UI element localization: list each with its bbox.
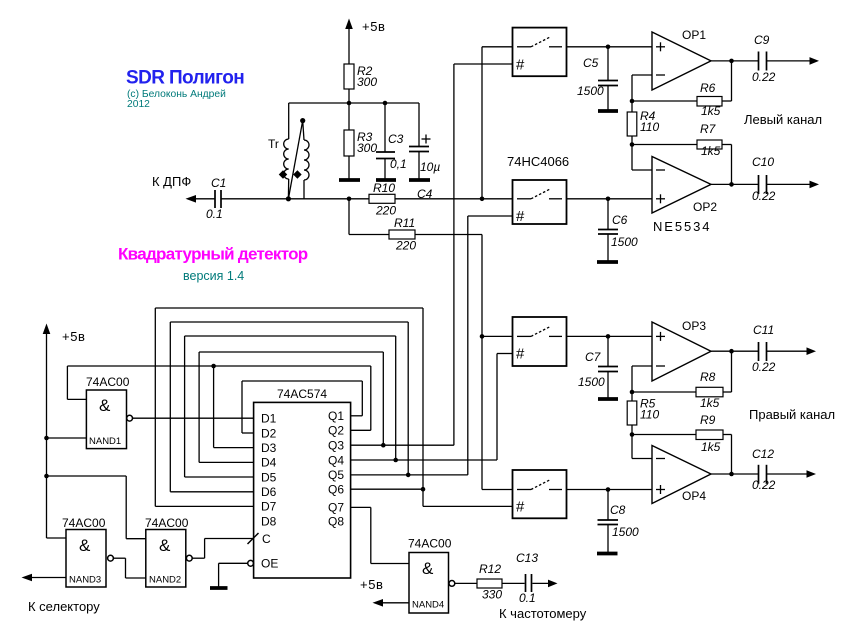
wire Q3 row to switch1 control [351, 444, 454, 446]
node R5 bottom [630, 432, 635, 437]
node R4 bottom [630, 142, 635, 147]
wire R6 left to node [632, 100, 697, 102]
capacitor C6 [598, 199, 638, 262]
wire riser to switch1 [481, 47, 483, 199]
resistor R10 [369, 181, 396, 218]
svg-text:+5в: +5в [62, 329, 86, 344]
wire switch1 output [567, 46, 653, 48]
capacitor C1 [206, 176, 226, 221]
wire OP4 inverting input [632, 435, 652, 459]
node rail NAND1 branch [44, 436, 49, 441]
bus arc1 Q6-D7 [155, 308, 423, 506]
svg-text:+5в: +5в [362, 19, 386, 34]
svg-text:10µ: 10µ [420, 160, 440, 174]
wire switch2 output [567, 198, 653, 200]
wire OP3 inverting input [632, 366, 652, 392]
svg-text:OP2: OP2 [693, 200, 717, 214]
transformer Tr [268, 103, 309, 199]
wire OP4 output [711, 473, 759, 475]
wire R2 to node [348, 89, 350, 103]
power +5v rail left [43, 324, 86, 539]
svg-text:Q4: Q4 [328, 453, 344, 467]
capacitor C7 [578, 336, 618, 399]
wire to R11 [349, 234, 389, 236]
svg-text:#: # [516, 346, 525, 363]
svg-text:D8: D8 [261, 515, 277, 529]
svg-text:1500: 1500 [612, 525, 639, 539]
wire switch2 control stub [468, 215, 513, 217]
wire R9 right drop to OP4 output [723, 435, 732, 475]
node C5 [606, 45, 611, 50]
svg-text:C9: C9 [754, 33, 770, 47]
op-amp OP4 [652, 446, 711, 504]
arrow left channel Q out [810, 181, 820, 189]
wire R9 row left [632, 434, 696, 436]
svg-text:NAND1: NAND1 [89, 436, 121, 447]
svg-text:R11: R11 [394, 216, 415, 230]
wire R11 net down to switch4 [481, 235, 483, 490]
resistor R9 [696, 413, 723, 454]
wire into switch1 [482, 46, 513, 48]
arrow left channel I out [810, 57, 820, 65]
wire R8 right [723, 391, 732, 393]
svg-text:C8: C8 [610, 503, 626, 517]
svg-text:D3: D3 [261, 441, 277, 455]
gate NAND4 74AC00 [408, 537, 455, 614]
arrow right channel Q out [807, 470, 817, 478]
node C6 [606, 197, 611, 202]
svg-text:#: # [516, 499, 525, 516]
svg-text:версия 1.4: версия 1.4 [183, 269, 244, 283]
bus arc6 Q1-D2 [242, 381, 362, 433]
node Q6 riser [421, 487, 426, 492]
svg-text:D5: D5 [261, 470, 277, 484]
svg-text:74AC00: 74AC00 [86, 375, 130, 389]
node arc5 D3 branch [211, 364, 216, 369]
svg-text:Правый канал: Правый канал [749, 407, 835, 422]
wire Q1 stub [351, 415, 363, 417]
svg-text:OE: OE [261, 557, 278, 571]
wire Q2 stub [351, 429, 371, 431]
switch U1a [513, 28, 567, 77]
gate NAND1 74AC00 [86, 375, 133, 449]
svg-text:0.22: 0.22 [752, 478, 776, 492]
resistor R5 [627, 392, 659, 435]
node R2/R3 junction [347, 101, 352, 106]
bus arc5 Q2-D3-NAND1 [67, 366, 370, 448]
resistor R4 [627, 101, 659, 145]
capacitor C10 [752, 155, 776, 203]
svg-text:NAND2: NAND2 [149, 575, 181, 586]
wire Q6 drop to switch4 control [423, 489, 513, 506]
capacitor C13 [516, 551, 538, 605]
wire R11 to corner [415, 234, 482, 236]
wire arrow to C1 [195, 198, 215, 200]
svg-text:NAND4: NAND4 [412, 600, 444, 611]
svg-text:Q2: Q2 [328, 424, 344, 438]
wire R12 to C13 [502, 582, 525, 584]
resistor R7 [697, 122, 722, 158]
node switch input riser [480, 197, 485, 202]
svg-text:R7: R7 [700, 122, 717, 136]
svg-text:+5в: +5в [360, 577, 384, 592]
svg-text:C7: C7 [585, 350, 602, 364]
ground under R3 [339, 178, 360, 182]
wire C11 to output [767, 350, 808, 352]
svg-text:0.22: 0.22 [752, 360, 776, 374]
wire R6 right [722, 100, 732, 102]
svg-text:#: # [516, 57, 525, 74]
wire Q7 to NAND4 [351, 507, 409, 563]
svg-text:0.22: 0.22 [752, 70, 776, 84]
svg-text:OP1: OP1 [682, 28, 706, 42]
node C7 [606, 334, 611, 339]
svg-text:0,1: 0,1 [390, 157, 407, 171]
wire NAND3 output to NAND2 input2 [113, 558, 145, 578]
svg-text:Q7: Q7 [328, 501, 344, 515]
svg-text:SDR Полигон: SDR Полигон [126, 68, 244, 89]
svg-text:Левый канал: Левый канал [744, 112, 822, 127]
switch U1d [513, 470, 567, 518]
wire C10 to output [767, 183, 811, 185]
svg-text:OP3: OP3 [682, 319, 706, 333]
node R5 top [630, 390, 635, 395]
svg-text:1500: 1500 [578, 375, 605, 389]
gate NAND3 74AC00 [62, 516, 113, 587]
wire switch1 control riser [453, 64, 455, 445]
resistor R11 [389, 216, 416, 253]
svg-text:1500: 1500 [577, 84, 604, 98]
svg-text:1500: 1500 [611, 235, 638, 249]
wire К селектору with arrow [22, 574, 67, 582]
svg-text:Q5: Q5 [328, 468, 344, 482]
arrow to КДПФ [186, 195, 197, 203]
ground under C7 [598, 397, 618, 401]
ground under C5 [598, 109, 618, 113]
node OP2 output [729, 182, 734, 187]
pin C clock [248, 532, 272, 546]
wire Q4 row to switch3 control [351, 459, 497, 461]
svg-text:74AC00: 74AC00 [145, 516, 189, 530]
node OP1 output [729, 59, 734, 64]
bus arc3 Q4-D5 [185, 336, 396, 477]
svg-text:C10: C10 [752, 155, 774, 169]
svg-text:74AC574: 74AC574 [277, 387, 327, 401]
wire OP3 feedback drop [731, 351, 733, 392]
wire switch1 control stub [454, 63, 513, 65]
svg-text:&: & [422, 559, 434, 578]
wire rail to NAND2 input1 [47, 476, 146, 539]
svg-text:NE5534: NE5534 [653, 219, 711, 234]
wire R8 left to node [632, 391, 696, 393]
node R4 top [630, 99, 635, 104]
capacitor C3 [376, 103, 407, 180]
svg-text:C3: C3 [388, 132, 404, 146]
wire OE to ground [219, 563, 248, 588]
svg-text:Q6: Q6 [328, 483, 344, 497]
wire OP1 feedback drop [731, 61, 733, 101]
bus arc2 Q5-D6 [170, 322, 408, 492]
wire switch4 output [567, 489, 653, 491]
svg-text:C1: C1 [211, 176, 226, 190]
wire C9 to left channel output [767, 60, 811, 62]
svg-text:220: 220 [395, 239, 416, 253]
gate NAND2 74AC00 [145, 516, 192, 587]
ground under C4 [409, 178, 430, 182]
svg-text:C11: C11 [753, 323, 774, 337]
IC U2 74AC574 [254, 387, 351, 578]
node C8 [606, 487, 611, 492]
node Q5 riser [406, 473, 411, 478]
node Q4 riser [393, 458, 398, 463]
svg-text:&: & [99, 396, 111, 415]
wire rail to NAND1 input2 [47, 437, 87, 439]
wire R10 to switch2 [395, 198, 513, 200]
svg-text:Tr: Tr [268, 137, 279, 151]
wire top node row [289, 102, 419, 104]
op-amp OP2 [652, 157, 717, 215]
capacitor C4 electrolytic [409, 103, 440, 201]
svg-text:1k5: 1k5 [701, 440, 721, 454]
node OP4 output [729, 472, 734, 477]
wire C1 to R10 [221, 198, 369, 200]
arrow К частотомеру [548, 580, 558, 588]
svg-text:D6: D6 [261, 485, 277, 499]
capacitor C11 [752, 323, 776, 374]
wire into switch4 [482, 489, 513, 491]
svg-text:R8: R8 [700, 370, 716, 384]
svg-text:C5: C5 [583, 56, 599, 70]
ground at OE [210, 586, 228, 590]
switch U1c [513, 317, 567, 366]
svg-text:74AC00: 74AC00 [62, 516, 106, 530]
wire Q6 row [351, 488, 423, 490]
svg-text:C13: C13 [516, 551, 538, 565]
svg-text:110: 110 [640, 120, 659, 134]
svg-text:C12: C12 [752, 447, 774, 461]
resistor R2 [344, 64, 377, 89]
svg-text:0.1: 0.1 [206, 207, 223, 221]
svg-text:C6: C6 [612, 213, 628, 227]
power +5v NAND4 input [360, 577, 409, 607]
svg-text:1k5: 1k5 [701, 144, 721, 158]
wire NAND4 output to R12 [455, 582, 477, 584]
capacitor C5 [577, 47, 618, 111]
node rail NAND2 branch [44, 474, 49, 479]
svg-text:0.22: 0.22 [752, 189, 776, 203]
svg-text:110: 110 [640, 408, 659, 422]
svg-text:R6: R6 [700, 81, 716, 95]
pin OE [248, 557, 279, 571]
svg-text:C: C [262, 532, 271, 546]
wire NAND2 output to C clock [192, 539, 253, 559]
wire into switch3 [482, 335, 513, 337]
svg-text:К частотомеру: К частотомеру [499, 606, 587, 621]
wire C13 to arrow [532, 582, 548, 584]
svg-text:1k5: 1k5 [700, 396, 720, 410]
svg-text:К селектору: К селектору [28, 599, 100, 614]
wire switch3 control riser [496, 354, 498, 461]
svg-text:Q3: Q3 [328, 439, 344, 453]
wire OP1 output [711, 60, 759, 62]
wire down to R11 [348, 199, 350, 235]
wire switch3 control stub [497, 353, 513, 355]
svg-text:Квадратурный детектор: Квадратурный детектор [118, 245, 308, 264]
wire R7 row left [632, 144, 697, 146]
svg-text:Q8: Q8 [328, 515, 344, 529]
resistor R12 [477, 562, 502, 602]
svg-text:К ДПФ: К ДПФ [152, 174, 191, 189]
bus arc4 Q3-D4 [199, 352, 383, 462]
svg-text:1k5: 1k5 [701, 104, 721, 118]
resistor R8 [696, 370, 723, 410]
wire OP2 inverting input [632, 145, 652, 171]
op-amp OP1 [652, 28, 711, 90]
svg-text:74AC00: 74AC00 [408, 537, 452, 551]
svg-text:D2: D2 [261, 426, 277, 440]
wire Q5 row to switch2 control [351, 474, 468, 476]
wire R7 right drop to OP2 output [722, 145, 732, 185]
svg-text:300: 300 [357, 75, 377, 89]
ground under C3 [376, 178, 396, 182]
arrow right channel I out [807, 347, 817, 355]
node C3 junction [383, 101, 388, 106]
node R11 branch [347, 197, 352, 202]
svg-text:74HC4066: 74HC4066 [507, 154, 569, 169]
ground under C8 [597, 552, 618, 556]
wire switch2 control riser [467, 216, 469, 475]
svg-text:&: & [79, 536, 91, 555]
svg-text:R10: R10 [373, 181, 395, 195]
node OP3 output [729, 349, 734, 354]
op-amp OP3 [652, 319, 711, 381]
svg-text:D4: D4 [261, 456, 277, 470]
capacitor C12 [752, 447, 776, 492]
svg-text:0.1: 0.1 [519, 591, 536, 605]
node transformer bottom [286, 196, 291, 201]
capacitor C9 [752, 33, 776, 84]
svg-text:NAND3: NAND3 [69, 575, 101, 586]
wire NAND1 output to D1 [133, 417, 254, 419]
svg-text:D1: D1 [261, 412, 277, 426]
svg-text:OP4: OP4 [682, 489, 706, 503]
wire switch3 output [567, 335, 653, 337]
svg-text:R12: R12 [479, 562, 501, 576]
svg-text:&: & [159, 536, 171, 555]
wire OP1 inverting input [632, 75, 652, 101]
svg-text:D7: D7 [261, 500, 277, 514]
power +5v top [345, 19, 385, 65]
svg-text:Q1: Q1 [328, 409, 344, 423]
resistor R6 [697, 81, 722, 118]
capacitor C8 [598, 490, 640, 554]
svg-text:#: # [516, 208, 525, 225]
ground under C6 [597, 260, 618, 264]
svg-text:R9: R9 [700, 413, 716, 427]
svg-text:2012: 2012 [127, 99, 150, 110]
switch U1b [513, 180, 567, 225]
node switch3 input [480, 334, 485, 339]
resistor R3 [344, 103, 377, 180]
wire OP2 output [711, 183, 759, 185]
wire OP3 output [711, 350, 759, 352]
svg-text:330: 330 [482, 588, 502, 602]
svg-text:300: 300 [357, 141, 377, 155]
node Q3 riser [381, 443, 386, 448]
wire rail to NAND3 input [47, 537, 67, 539]
wire C12 to output [767, 473, 808, 475]
